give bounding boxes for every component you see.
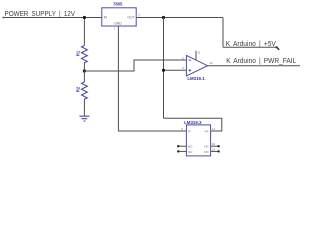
svg-text:LM319.1: LM319.1 bbox=[187, 76, 205, 81]
svg-text:K Arduino | +5V: K Arduino | +5V bbox=[226, 40, 276, 48]
svg-text:POWER SUPPLY | 12V: POWER SUPPLY | 12V bbox=[5, 9, 76, 18]
pin NC left 2 stub bbox=[178, 150, 186, 152]
ground symbol bbox=[79, 116, 89, 121]
svg-text:6: 6 bbox=[181, 127, 183, 131]
svg-text:V+: V+ bbox=[205, 129, 209, 133]
wire R1 top drop from rail bbox=[83, 18, 85, 46]
svg-text:R2: R2 bbox=[75, 86, 80, 92]
svg-text:LM319.3: LM319.3 bbox=[184, 120, 202, 125]
wire 12V rail bbox=[3, 17, 102, 19]
wire 7805 GND down and right to LM319.3 bbox=[118, 26, 186, 131]
pin NC right 1 end dot bbox=[218, 145, 220, 147]
svg-text:11: 11 bbox=[197, 51, 200, 55]
wire comparator output to PWR_FAIL bbox=[208, 65, 301, 67]
pin NC right 1 stub bbox=[211, 145, 219, 147]
svg-text:11: 11 bbox=[212, 127, 215, 131]
wire divider to comparator minus (stepped) bbox=[84, 60, 186, 71]
svg-text:NC: NC bbox=[188, 145, 193, 149]
svg-text:7805: 7805 bbox=[113, 2, 123, 7]
svg-text:K Arduino | PWR_FAIL: K Arduino | PWR_FAIL bbox=[226, 57, 296, 65]
svg-text:IN: IN bbox=[104, 16, 108, 20]
wire R2 bottom to ground bbox=[83, 99, 85, 116]
op-amp minus sign bbox=[189, 59, 192, 61]
svg-text:12: 12 bbox=[212, 147, 216, 151]
svg-text:NC: NC bbox=[204, 150, 209, 154]
power unit U1 LM319.3 body bbox=[186, 125, 210, 156]
junction divider node bbox=[83, 69, 86, 72]
wire end marker bbox=[277, 47, 280, 50]
op-amp power stub bbox=[195, 51, 197, 60]
regulator U? 7805 body bbox=[102, 8, 136, 26]
op-amp U1 LM319.1 triangle bbox=[186, 55, 207, 76]
wire 7805 OUT to +5V corner bbox=[136, 17, 223, 19]
wire +5V label underline bbox=[223, 46, 277, 48]
wire R1 bottom to divider junction bbox=[83, 62, 85, 71]
pin NC right 2 end dot bbox=[218, 150, 220, 152]
svg-text:1: 1 bbox=[114, 27, 116, 31]
resistor R1 zigzag bbox=[82, 46, 88, 63]
svg-text:4: 4 bbox=[182, 66, 184, 70]
svg-text:12: 12 bbox=[209, 61, 213, 65]
junction at OUT rail and +5V drop bbox=[162, 16, 165, 19]
pin NC left 1 end dot bbox=[177, 145, 179, 147]
pin NC right 2 stub bbox=[211, 150, 219, 152]
junction at 12V rail and R1 bbox=[83, 16, 86, 19]
pin NC left 2 end dot bbox=[177, 150, 179, 152]
pin NC left 1 stub bbox=[178, 145, 186, 147]
wire +5V bottom run to LM319.3 bbox=[164, 118, 222, 131]
svg-text:10: 10 bbox=[212, 142, 216, 146]
svg-text:OUT: OUT bbox=[127, 16, 134, 20]
svg-text:NC: NC bbox=[204, 145, 209, 149]
svg-text:V-: V- bbox=[188, 129, 191, 133]
junction +5V tap bbox=[162, 69, 165, 72]
wire +5V vertical bus down bbox=[163, 18, 165, 119]
wire end nub bbox=[3, 17, 5, 19]
op-amp plus sign bbox=[189, 69, 192, 72]
wire R2 top bbox=[83, 71, 85, 82]
svg-text:NC: NC bbox=[188, 150, 193, 154]
wire +5V tap to comparator plus bbox=[164, 69, 187, 71]
wire +5V drop down to label bbox=[222, 18, 224, 48]
svg-text:2: 2 bbox=[138, 13, 140, 17]
svg-text:R1: R1 bbox=[75, 50, 80, 56]
resistor R2 zigzag bbox=[82, 82, 88, 99]
svg-text:GND: GND bbox=[114, 21, 122, 25]
